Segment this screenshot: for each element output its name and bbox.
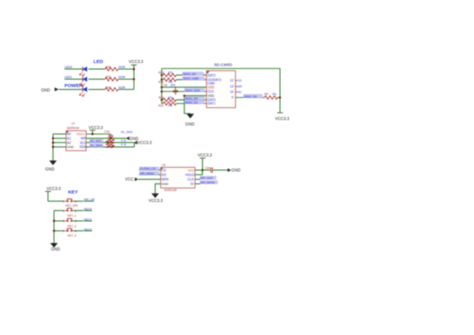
svg-text:GND: GND (162, 182, 170, 186)
svg-text:12: 12 (230, 79, 234, 83)
svg-text:U6: U6 (162, 163, 166, 167)
svg-text:SD-CARD: SD-CARD (214, 62, 232, 67)
svg-text:KEY_1: KEY_1 (68, 214, 77, 218)
svg-text:C10: C10 (104, 130, 110, 134)
svg-text:R23: R23 (159, 71, 165, 75)
svg-text:GND: GND (185, 122, 194, 127)
svg-text:SPI_MOSI: SPI_MOSI (200, 180, 214, 184)
svg-text:CLK: CLK (188, 178, 195, 182)
svg-text:HOLD: HOLD (186, 173, 196, 177)
svg-text:VCC3.3: VCC3.3 (137, 140, 152, 145)
svg-text:R30: R30 (106, 85, 112, 89)
svg-text:KEY_2: KEY_2 (68, 224, 77, 228)
svg-text:SDIO_D3: SDIO_D3 (183, 72, 196, 76)
svg-text:GND: GND (67, 145, 75, 149)
svg-text:VCC3.3: VCC3.3 (129, 59, 144, 64)
svg-text:WP: WP (237, 85, 242, 89)
svg-text:4.7k: 4.7k (121, 142, 127, 146)
svg-text:R8: R8 (265, 92, 269, 96)
svg-text:VCC: VCC (125, 177, 134, 182)
svg-text:47k: 47k (272, 92, 277, 96)
svg-text:VCC3.3: VCC3.3 (47, 186, 62, 191)
svg-text:VCC3.3: VCC3.3 (149, 198, 164, 203)
svg-text:EEPROM: EEPROM (67, 126, 80, 130)
svg-text:SPI_SCK: SPI_SCK (200, 176, 213, 180)
svg-text:510R: 510R (119, 85, 126, 89)
svg-text:KEY: KEY (68, 189, 79, 195)
svg-text:POWER: POWER (65, 83, 84, 89)
svg-text:SDIO_D2: SDIO_D2 (244, 94, 257, 98)
svg-text:GND: GND (41, 87, 50, 92)
svg-text:10: 10 (230, 90, 234, 94)
svg-text:IIC_SDA: IIC_SDA (90, 144, 102, 148)
svg-text:SDIO_SCK: SDIO_SCK (185, 88, 200, 92)
svg-text:CS: CS (162, 168, 166, 172)
svg-text:9: 9 (232, 96, 234, 100)
svg-text:LED1: LED1 (65, 75, 73, 79)
svg-text:SDIO_CMD: SDIO_CMD (183, 77, 200, 81)
svg-text:SO: SO (162, 173, 167, 177)
svg-text:13: 13 (230, 85, 234, 89)
svg-text:47k: 47k (168, 103, 173, 107)
svg-text:47k: 47k (168, 95, 173, 99)
svg-text:DAT2: DAT2 (208, 73, 216, 77)
svg-text:VCC3.3: VCC3.3 (198, 153, 213, 158)
svg-text:KEY_UP1: KEY_UP1 (66, 203, 79, 207)
svg-text:C8: C8 (164, 83, 168, 87)
svg-text:DAT1: DAT1 (208, 102, 216, 106)
svg-text:GND: GND (231, 168, 240, 173)
svg-text:R21: R21 (159, 95, 165, 99)
svg-text:R28: R28 (106, 65, 112, 69)
svg-text:IIC_SDA: IIC_SDA (121, 130, 133, 134)
svg-text:47k: 47k (168, 71, 173, 75)
svg-text:W25X128: W25X128 (164, 188, 177, 192)
svg-text:LED: LED (94, 59, 104, 65)
svg-text:SDA: SDA (80, 145, 87, 149)
svg-text:SI: SI (191, 182, 194, 186)
svg-text:R22: R22 (159, 103, 165, 107)
svg-text:510R: 510R (119, 75, 126, 79)
svg-text:R29: R29 (106, 75, 112, 79)
svg-text:VCC3.3: VCC3.3 (89, 125, 104, 130)
svg-text:C34: C34 (205, 166, 211, 170)
svg-text:KEY_3: KEY_3 (68, 233, 77, 237)
svg-text:WP#: WP# (162, 178, 169, 182)
svg-text:SPI_MISO: SPI_MISO (140, 171, 155, 175)
svg-text:GND: GND (45, 167, 54, 172)
svg-text:VCC3.3: VCC3.3 (275, 116, 290, 121)
svg-text:LED0: LED0 (65, 65, 73, 69)
svg-text:GND: GND (51, 246, 60, 251)
svg-text:SDIO_D1: SDIO_D1 (185, 100, 198, 104)
svg-text:VCC: VCC (188, 168, 195, 172)
svg-text:510R: 510R (119, 65, 126, 69)
svg-text:FLASH_CS: FLASH_CS (140, 167, 156, 171)
svg-text:104: 104 (171, 83, 176, 87)
svg-text:U7: U7 (71, 121, 75, 125)
